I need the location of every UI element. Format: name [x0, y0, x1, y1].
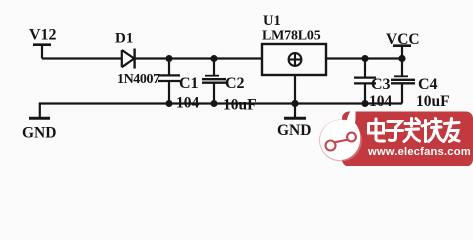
svg-text:U1: U1: [263, 13, 281, 29]
svg-text:C4: C4: [418, 76, 438, 93]
svg-text:GND: GND: [277, 122, 311, 139]
svg-text:104: 104: [369, 93, 393, 110]
svg-text:C2: C2: [225, 75, 245, 92]
svg-text:GND: GND: [22, 125, 56, 142]
svg-text:C3: C3: [371, 76, 391, 93]
svg-text:V12: V12: [29, 27, 57, 44]
svg-text:104: 104: [176, 95, 200, 112]
svg-text:C1: C1: [179, 75, 199, 92]
svg-text:1N4007: 1N4007: [117, 72, 160, 87]
svg-text:D1: D1: [115, 31, 133, 47]
svg-text:VCC: VCC: [386, 31, 420, 48]
svg-text:10uF: 10uF: [416, 93, 450, 110]
svg-text:LM78L05: LM78L05: [262, 29, 321, 44]
svg-text:10uF: 10uF: [223, 97, 257, 114]
svg-text:www.elecfans.com: www.elecfans.com: [367, 146, 471, 158]
